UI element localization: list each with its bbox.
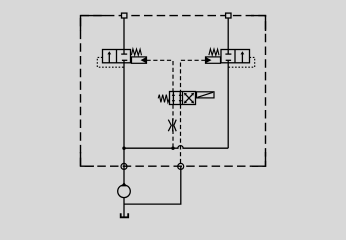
V1 pilot control line (dashed) to valve V3 port A (147, 60, 174, 91)
V2 blocked port T (top, left chamber) (225, 50, 231, 55)
wire: return line from right node down and left to tank line (124, 166, 181, 204)
V2 blocked port T (bottom, left chamber) (226, 60, 231, 63)
pump outlet triangle (121, 182, 127, 186)
pilot drain line continued (dashed) below X (172, 130, 174, 148)
tank T1 (121, 213, 129, 217)
V2 pilot actuator box (206, 57, 221, 63)
V3 parallel flow path 2 with double arrows (179, 92, 182, 105)
wire: right supply drop from border to valve V2 (227, 16, 229, 50)
valve V2 body (2/2 pilot valve, right) (221, 50, 250, 63)
pump P1 (fixed displacement) (118, 185, 131, 198)
wire: horizontal link between valve drains with hop over pilot line (124, 146, 228, 149)
V3 parallel flow path 1 with double arrows (172, 92, 175, 105)
V1 return spring (top right) (131, 49, 141, 55)
quick coupling symbol (two chevrons on the line) (168, 119, 176, 132)
V2 pilot triangle (206, 57, 212, 63)
V2 internal pilot tap (dotted loop) (228, 57, 255, 67)
wire: V2 bottom port down to junction level (227, 63, 229, 148)
valve V1 body (2/2 pilot valve, left) (103, 50, 131, 63)
V2 return spring (top left) (209, 49, 219, 55)
V1 flow arrow (left chamber) (107, 51, 111, 63)
V3 solenoid (rectangle with diagonal) (197, 92, 215, 98)
V2 pilot control line (dashed) to valve V3 port B (181, 60, 206, 91)
wire: left supply drop from border to valve V1 (123, 16, 125, 50)
pilot drain line (dashed) from V3 port down to link line (172, 105, 174, 121)
connection point square (right, on top border) (226, 13, 231, 18)
V3 crossed flow paths (X chamber) (184, 93, 194, 104)
V1 pilot actuator box (132, 57, 147, 63)
V2 flow arrow (right chamber) (241, 51, 245, 63)
node circle (left, on bottom border) (121, 163, 127, 169)
connection point square (left, on top border) (122, 13, 127, 18)
wire: V1 bottom port down to pump (123, 63, 125, 185)
dashed enclosure border (81, 16, 266, 167)
V1 blocked port T (top, right chamber) (121, 50, 127, 55)
tank return line (dashed) from V3 port B down to border node (180, 105, 182, 167)
valve V3 body (4/2 solenoid valve, middle) (170, 92, 196, 105)
V3 return spring (left) (158, 95, 169, 103)
junction dot at left supply / link line (122, 147, 125, 150)
V1 pilot triangle (141, 57, 147, 63)
junction dot at pilot drain / link line (171, 147, 174, 150)
V1 blocked port T (bottom, right chamber) (122, 60, 127, 63)
V1 internal pilot tap (dotted loop) (97, 57, 124, 67)
wire: pump suction line down to tank (123, 198, 125, 217)
node circle (right, on bottom border) (178, 163, 184, 169)
